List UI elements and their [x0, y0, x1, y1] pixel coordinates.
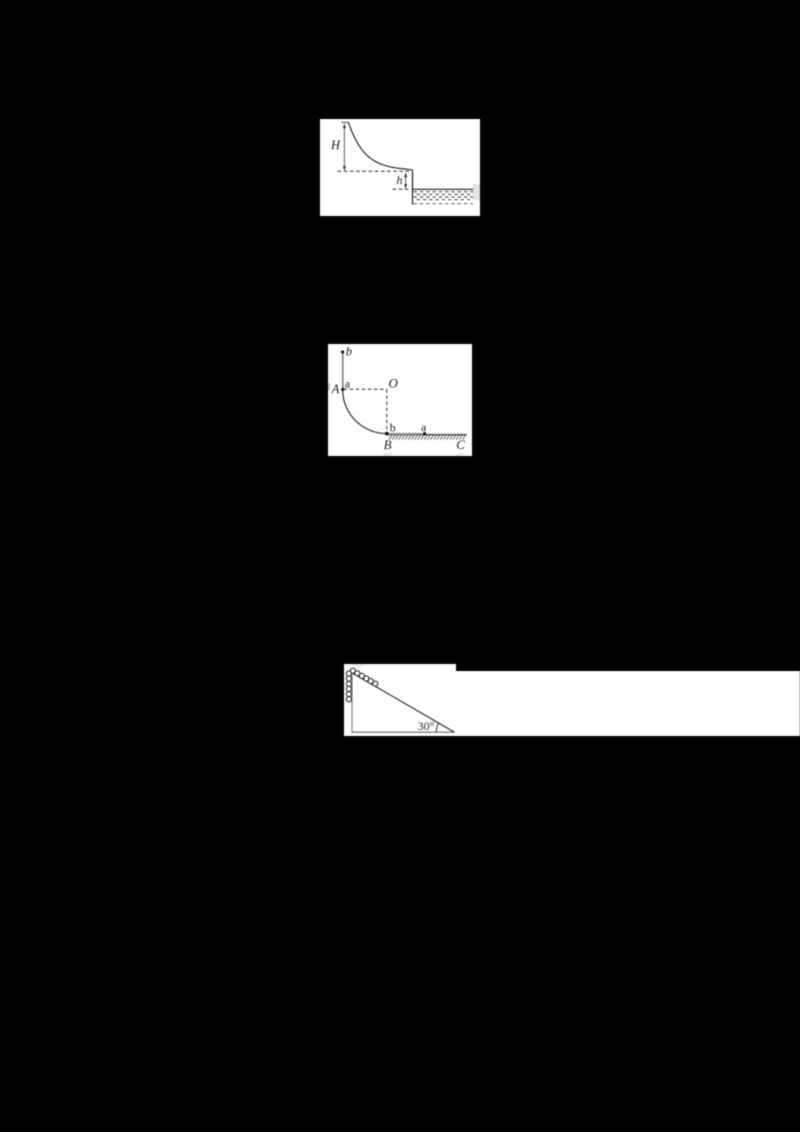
figure 3: 30-degree incline with bead chain panel [344, 664, 800, 736]
point B dot [385, 432, 389, 436]
bead L4 [346, 686, 351, 691]
incline base [352, 731, 455, 733]
angle arc at 30 degrees [436, 723, 438, 732]
panel 1 white background [320, 119, 480, 216]
svg-text:a: a [421, 420, 427, 434]
point a dot (on ground) [423, 432, 426, 435]
ground hatching [389, 435, 466, 440]
svg-text:b: b [346, 344, 352, 358]
svg-text:h: h [397, 173, 403, 187]
svg-text:A: A [331, 382, 340, 396]
bead L2 [346, 676, 351, 681]
water dashes row 1 [414, 191, 474, 193]
ground line B to C [387, 434, 467, 436]
faint smudge near apex [353, 664, 364, 666]
H dimension arrow [343, 123, 346, 171]
point b dot (top) [341, 350, 344, 353]
dashed line O to B [386, 389, 388, 433]
top ledge [341, 121, 349, 123]
panel 2 white background [328, 344, 472, 456]
incline vertical side [351, 672, 353, 731]
faint underline below C [456, 453, 464, 454]
rough gray segment B to a [389, 433, 424, 435]
dashed water-level stub left of cliff [393, 188, 410, 190]
water dashes row 2 [417, 193, 474, 195]
bead L6 [346, 696, 351, 701]
bead S5 [373, 681, 378, 686]
faint left-edge mark [328, 383, 330, 390]
svg-text:b: b [390, 420, 396, 434]
svg-text:C: C [456, 437, 465, 452]
dashed level line at curve bottom [338, 170, 410, 172]
svg-text:O: O [389, 375, 399, 390]
incline hypotenuse [352, 672, 455, 731]
water dashes row 4 [417, 199, 474, 201]
bead L3 [346, 681, 351, 686]
gray patch right edge [473, 184, 481, 200]
bead L5 [346, 691, 351, 696]
point A dot [341, 388, 344, 391]
figure 2: quarter-circle track ABC panel [328, 344, 472, 456]
water dashes row 3 [414, 196, 474, 198]
figure 1: slide into water panel [320, 119, 480, 216]
bead chain circles [346, 668, 378, 702]
faint underline below B [384, 453, 392, 455]
slide curve [349, 123, 413, 171]
bead S1 [355, 670, 360, 675]
svg-text:B: B [384, 437, 392, 452]
h dimension arrow [404, 172, 407, 189]
quarter-circle arc A to B [343, 389, 387, 433]
bead L1 [346, 671, 351, 676]
bead apex [350, 668, 355, 673]
svg-text:30°: 30° [418, 718, 435, 732]
svg-text:a: a [345, 377, 351, 391]
cliff vertical wall [412, 170, 414, 205]
bead S2 [359, 673, 364, 678]
panel 3 white strip (left, tall) [344, 664, 456, 736]
vertical drop line b to A [342, 352, 344, 389]
panel 3 white band (wide) [456, 671, 800, 735]
bead S3 [364, 675, 369, 680]
svg-text:H: H [330, 138, 341, 152]
bead S4 [368, 678, 373, 683]
water dashes row 5 [414, 203, 474, 205]
dashed line A to O [344, 388, 387, 390]
water surface line [413, 188, 474, 190]
